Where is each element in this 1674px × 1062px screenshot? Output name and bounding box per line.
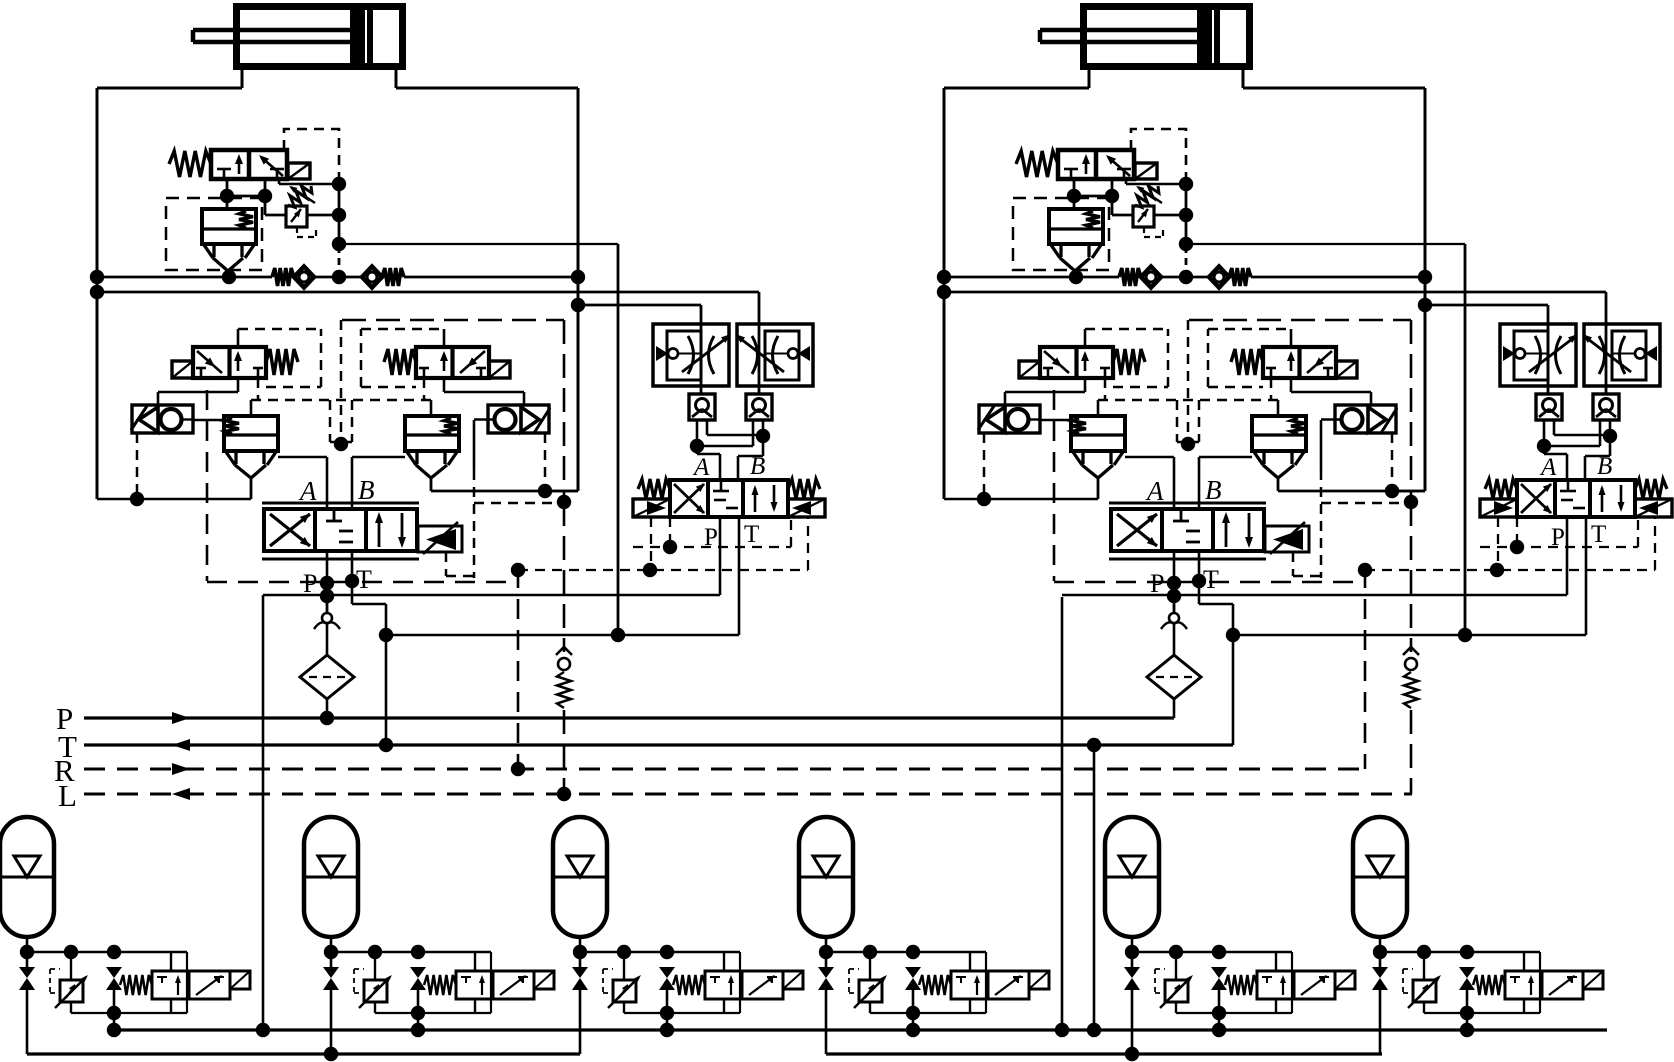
svg-text:A: A — [298, 476, 317, 506]
svg-text:L: L — [58, 778, 77, 813]
svg-text:A: A — [692, 454, 710, 481]
svg-text:B: B — [750, 453, 765, 480]
svg-text:B: B — [358, 475, 375, 505]
svg-text:T: T — [744, 521, 759, 548]
svg-text:P: P — [303, 569, 317, 598]
